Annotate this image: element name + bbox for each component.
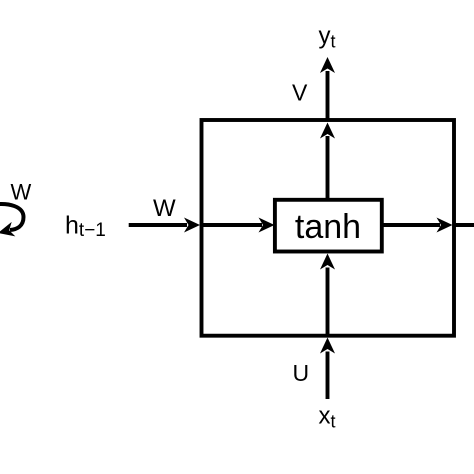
arrowhead into bottom edge from outside	[320, 338, 335, 354]
svg-text:W: W	[11, 180, 32, 205]
wire h input shaft	[129, 223, 187, 227]
svg-text:tanh: tanh	[295, 208, 361, 246]
wire y output shaft	[326, 71, 330, 120]
svg-text:xt: xt	[319, 403, 336, 432]
wire inner left shaft	[202, 223, 263, 227]
arrowhead into left edge	[184, 218, 200, 233]
wire bottom edge to tanh shaft	[326, 268, 330, 336]
wire tanh output right shaft	[382, 223, 440, 227]
svg-text:yt: yt	[319, 23, 336, 52]
recurrent self-loop arrowhead	[0, 222, 15, 240]
arrowhead to y_t	[320, 57, 335, 73]
svg-text:W: W	[153, 195, 176, 222]
wire x input shaft	[326, 352, 330, 400]
arrowhead into right edge	[437, 218, 453, 233]
arrowhead into tanh left edge	[259, 218, 275, 233]
arrowhead into top edge from inside	[320, 123, 335, 139]
svg-text:U: U	[293, 360, 310, 386]
svg-text:ht−1: ht−1	[65, 212, 106, 242]
outer RNN cell box	[202, 120, 455, 336]
wire tanh to top edge shaft	[326, 136, 330, 200]
tanh box	[275, 200, 382, 252]
recurrent self-loop wire	[0, 204, 24, 230]
svg-text:V: V	[292, 80, 308, 106]
wire output continuation right	[454, 223, 474, 227]
arrowhead into tanh bottom edge	[320, 254, 335, 270]
